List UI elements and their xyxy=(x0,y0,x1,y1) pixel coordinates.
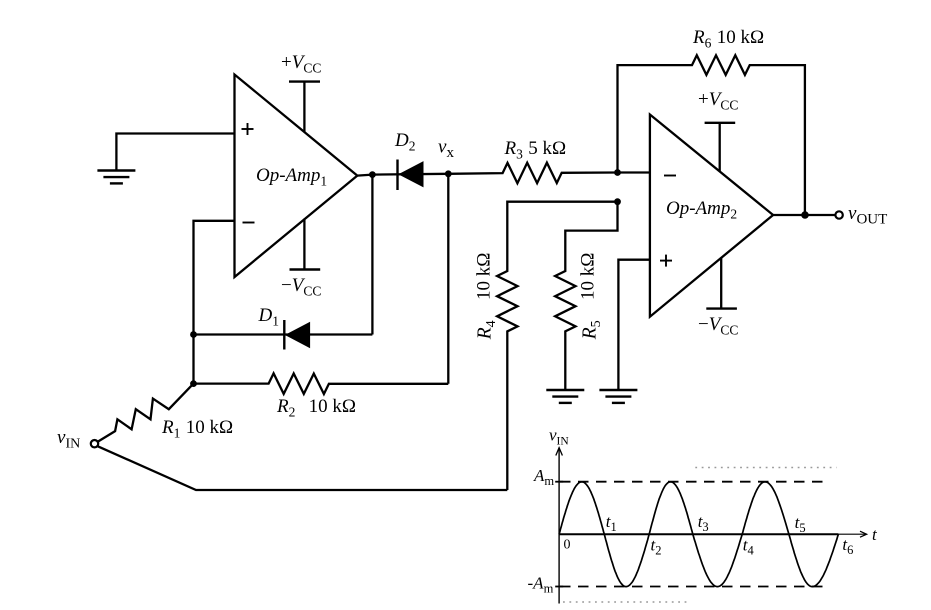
graph vIN sine waveform xyxy=(559,482,838,587)
wire and resistor R5 branch xyxy=(555,202,617,390)
U1 +VCC supply bar and lead xyxy=(289,82,320,133)
op-amp U2 - input symbol xyxy=(664,175,676,177)
U2 -VCC label xyxy=(698,314,738,338)
wire U2 output xyxy=(773,214,835,216)
diode D2 label xyxy=(394,130,415,154)
svg-text:R3 5 kΩ: R3 5 kΩ xyxy=(504,138,567,162)
U1 -VCC label xyxy=(281,275,321,299)
op-amp U1 Op-Amp1 triangle xyxy=(235,75,358,278)
resistor R1 label xyxy=(161,417,233,441)
op-amp U2 label Op-Amp2 xyxy=(666,198,737,222)
graph -Am label xyxy=(528,574,554,596)
op-amp U1 label Op-Amp1 xyxy=(256,165,327,189)
wire U1 + input to ground xyxy=(116,134,234,171)
node vx label xyxy=(438,137,454,162)
graph origin 0 label xyxy=(564,538,571,553)
wire D1 branch xyxy=(194,175,373,335)
wire R6 feedback loop xyxy=(618,55,805,215)
svg-text:10 kΩ: 10 kΩ xyxy=(578,253,599,300)
node junction dot at D1 left xyxy=(190,331,197,338)
wire and resistor R2 xyxy=(194,373,449,394)
graph t1 label xyxy=(606,512,617,534)
resistor R3 label xyxy=(504,138,567,162)
vOUT label xyxy=(848,203,887,228)
graph Am dashed line xyxy=(560,481,828,483)
wire vx down to R2 xyxy=(447,174,449,384)
svg-text:R6 10 kΩ: R6 10 kΩ xyxy=(692,27,764,51)
wire and resistor R1 xyxy=(98,384,193,442)
graph t3 label xyxy=(698,512,709,534)
wire and resistor R4 branch xyxy=(497,202,617,490)
svg-text:Op-Amp2: Op-Amp2 xyxy=(666,198,737,222)
U1 -VCC supply lead and bar xyxy=(290,219,321,270)
resistor R4 name label xyxy=(475,320,500,340)
graph Am tick xyxy=(555,481,563,483)
ground under R5 xyxy=(546,390,584,403)
resistor R4 value label 10k xyxy=(474,253,495,300)
node junction dot at R4/R5 branch xyxy=(614,198,621,205)
graph -Am dashed line xyxy=(560,586,826,588)
faint dotted artifact bottom xyxy=(563,601,687,603)
graph y-axis with arrow xyxy=(556,448,563,604)
op-amp U2 + input symbol xyxy=(660,255,672,267)
vIN label xyxy=(57,427,80,452)
U1 +VCC label xyxy=(281,52,321,76)
resistor R6 label xyxy=(692,27,764,51)
op-amp U1 + input symbol xyxy=(242,123,254,135)
U2 -VCC supply lead and bar xyxy=(706,258,737,309)
node junction dot U1 output xyxy=(369,171,376,178)
svg-text:0: 0 xyxy=(564,538,571,553)
svg-text:Op-Amp1: Op-Amp1 xyxy=(256,165,327,189)
graph t axis label xyxy=(872,525,878,544)
graph x-axis with arrow xyxy=(559,531,867,537)
graph t4 label xyxy=(743,536,755,558)
wire U2 + input to ground xyxy=(618,260,650,390)
graph Am label xyxy=(533,466,554,488)
wire vIN to R4 bottom xyxy=(98,446,508,490)
graph t6 label xyxy=(842,535,853,557)
node junction dot output xyxy=(801,211,809,219)
graph t2 label xyxy=(651,536,662,558)
svg-text:10 kΩ: 10 kΩ xyxy=(474,253,495,300)
node junction dot at U2 - input xyxy=(614,169,621,176)
wire U1 - input down to R1/R2 node xyxy=(194,221,235,384)
terminal vOUT open circle xyxy=(835,211,842,218)
svg-text:R2 10 kΩ: R2 10 kΩ xyxy=(276,396,356,420)
diode D2 xyxy=(398,160,424,191)
op-amp U1 - input symbol xyxy=(243,222,255,224)
node junction dot at R1/R2 xyxy=(190,380,197,387)
wire U1 output through D2, vx, R3 to U2 - input xyxy=(357,163,650,184)
diode D1 label xyxy=(258,305,279,329)
resistor R2 label xyxy=(276,396,356,420)
ground at U1 + input xyxy=(97,171,135,184)
U2 +VCC supply bar and lead xyxy=(705,123,736,171)
node vx dot xyxy=(445,170,452,177)
resistor R5 value label 10k xyxy=(578,253,599,300)
graph -Am tick xyxy=(555,586,563,588)
ground at U2 + input xyxy=(599,390,637,403)
U2 +VCC label xyxy=(698,89,738,113)
diode D1 xyxy=(284,320,309,350)
faint dotted artifact top xyxy=(695,467,836,469)
graph t5 label xyxy=(795,513,806,535)
op-amp U2 Op-Amp2 triangle xyxy=(650,115,773,317)
terminal vIN open circle xyxy=(91,440,98,447)
graph vIN axis label xyxy=(549,426,569,448)
svg-text:R1 10 kΩ: R1 10 kΩ xyxy=(161,417,233,441)
resistor R5 name label xyxy=(580,320,605,340)
